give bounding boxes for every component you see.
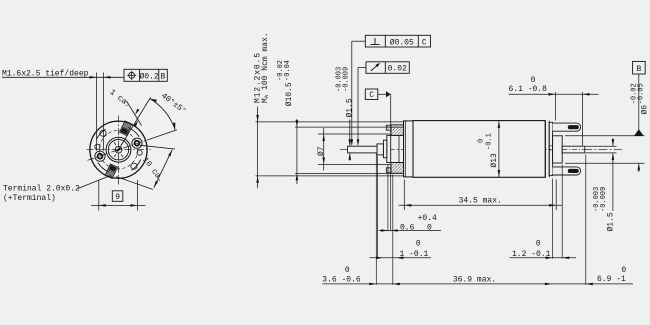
side view: collar bore lines	[391, 134, 404, 136]
svg-text:B: B	[160, 72, 165, 81]
svg-text:6.9 -1: 6.9 -1	[597, 275, 626, 284]
svg-text:C: C	[422, 38, 427, 47]
svg-text:Ø10.5: Ø10.5	[285, 82, 294, 106]
FCF circular runout 0.02	[366, 62, 409, 74]
end view: rim cutout arcs	[131, 160, 140, 171]
svg-text:Ø1.5: Ø1.5	[345, 98, 354, 117]
side view: shaft step dia 4	[383, 140, 386, 158]
dimension 10 ca. line	[154, 150, 173, 188]
svg-text:(+Terminal): (+Terminal)	[3, 194, 56, 203]
dimension 9 (boxed) extension lines	[98, 180, 100, 211]
svg-text:Ø6: Ø6	[641, 105, 650, 115]
end view: collar inner double circle	[106, 137, 131, 162]
side view: terminal bottom	[553, 167, 581, 175]
side view: front shaft dia 1.5	[348, 146, 377, 153]
svg-text:3.6 -0.6: 3.6 -0.6	[322, 275, 361, 284]
end view: vertical centerline	[118, 116, 120, 185]
end view: M1.6 tapped hole upper right	[132, 138, 142, 148]
angle dimension 40 deg arc	[150, 99, 175, 130]
svg-text:-0.1: -0.1	[485, 133, 493, 150]
svg-text:0: 0	[621, 266, 626, 275]
FCF2 leader	[358, 67, 366, 69]
side view: rear boss dia 6	[553, 136, 563, 163]
end view: hole-axis solid extension	[148, 130, 177, 140]
side view: front face plate	[404, 121, 414, 177]
svg-text:Ø7: Ø7	[317, 146, 326, 156]
end view: collar radial ticks	[121, 154, 123, 157]
M1.6 hole extension lines	[96, 73, 98, 151]
side view: threaded collar (hatched)	[391, 125, 404, 136]
feature control frame: position dia 0.2 B	[124, 69, 167, 81]
end view: terminal cross-section bottom	[105, 164, 117, 178]
datum C flag	[365, 89, 378, 100]
FCF perpendicularity dia 0.05 | C	[365, 35, 430, 47]
svg-text:0: 0	[477, 139, 485, 143]
svg-text:C: C	[369, 91, 374, 100]
svg-text:Ø0.2: Ø0.2	[139, 72, 158, 81]
svg-text:MA 100 Ncm max.: MA 100 Ncm max.	[261, 32, 270, 103]
svg-text:36.9 max.: 36.9 max.	[453, 275, 496, 284]
svg-text:+0.4: +0.4	[418, 214, 437, 223]
svg-text:0: 0	[427, 224, 432, 233]
side view: rear shaft dia 1.5	[562, 146, 585, 153]
side view: shaft step dia 2.8	[377, 144, 383, 155]
svg-text:0: 0	[531, 76, 536, 85]
datum B box	[633, 61, 646, 74]
svg-text:-0.04: -0.04	[284, 60, 292, 81]
end view: horizontal centerline	[87, 149, 152, 151]
svg-text:-0.009: -0.009	[342, 67, 350, 92]
end view: M1.6 tapped hole left	[95, 151, 105, 161]
end view: terminal cross-section top	[120, 121, 132, 135]
side view: thread section squares	[386, 125, 391, 130]
dimension 9 line	[91, 204, 146, 206]
svg-text:Ø0.05: Ø0.05	[390, 38, 414, 47]
dimension 10 ca. extension lines	[140, 145, 175, 149]
side view: motor body	[413, 121, 545, 178]
svg-text:-0.009: -0.009	[600, 187, 608, 212]
side view: rear cap rings	[544, 121, 546, 178]
end view: bolt pitch circle (dashed)	[99, 131, 137, 169]
svg-text:0: 0	[416, 239, 421, 248]
end view: terminal-axis line	[119, 98, 151, 150]
svg-text:0: 0	[536, 239, 541, 248]
svg-text:Ø1.5: Ø1.5	[607, 212, 616, 231]
FCF1 leader	[352, 40, 366, 42]
svg-text:0.02: 0.02	[388, 65, 407, 74]
svg-text:34.5 max.: 34.5 max.	[459, 197, 502, 206]
svg-text:9: 9	[115, 193, 120, 202]
side view: horizontal centerline	[340, 148, 622, 150]
svg-text:0: 0	[345, 266, 350, 275]
end view: small holes	[137, 150, 142, 155]
side view: bearing plug	[387, 135, 391, 162]
svg-text:B: B	[636, 65, 641, 74]
dimension 9 box	[112, 191, 123, 202]
svg-text:Ø13: Ø13	[490, 153, 499, 168]
side view: terminal top	[553, 123, 581, 131]
end view: hole-axis centerline	[88, 140, 149, 161]
svg-text:0.6: 0.6	[400, 224, 415, 233]
svg-text:Terminal 2.0x0.2: Terminal 2.0x0.2	[3, 185, 80, 194]
end view: motor front face circle	[90, 121, 147, 178]
end view: shaft circle	[115, 146, 122, 153]
svg-text:6.1 -0.8: 6.1 -0.8	[509, 85, 548, 94]
